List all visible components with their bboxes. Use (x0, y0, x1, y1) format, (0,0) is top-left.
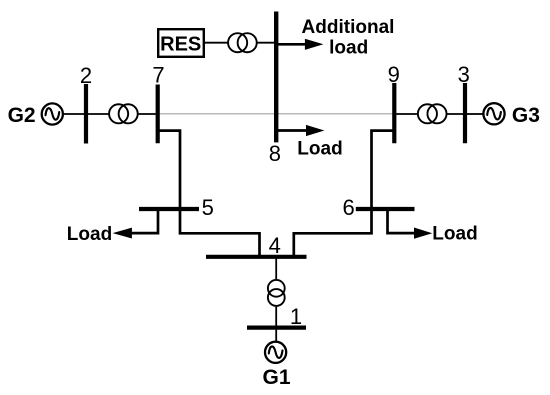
svg-text:5: 5 (202, 195, 214, 220)
svg-text:1: 1 (290, 304, 302, 329)
svg-text:G2: G2 (8, 104, 36, 127)
svg-text:Load: Load (67, 224, 112, 245)
svg-text:Load: Load (297, 139, 342, 160)
svg-text:G3: G3 (512, 104, 540, 127)
svg-text:4: 4 (269, 233, 281, 258)
svg-text:3: 3 (458, 62, 470, 87)
svg-text:8: 8 (269, 141, 281, 166)
svg-text:2: 2 (80, 63, 92, 88)
svg-text:Additional: Additional (302, 17, 395, 38)
svg-text:7: 7 (152, 62, 164, 87)
svg-text:load: load (329, 38, 368, 59)
svg-text:6: 6 (342, 195, 354, 220)
svg-text:G1: G1 (262, 366, 290, 389)
svg-text:Load: Load (432, 224, 477, 245)
svg-text:RES: RES (160, 33, 201, 55)
svg-text:9: 9 (388, 62, 400, 87)
